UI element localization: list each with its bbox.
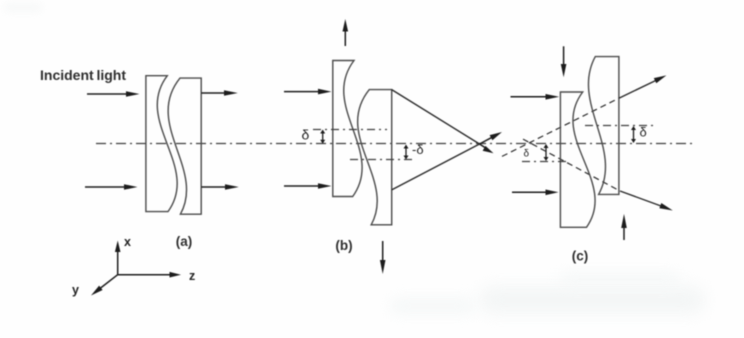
minus-delta marker (b) right bbox=[404, 142, 424, 160]
svg-text:δ: δ bbox=[302, 126, 310, 142]
delta marker (c) right bbox=[631, 125, 647, 144]
svg-text:Incident light: Incident light bbox=[40, 67, 126, 83]
lens element A2 (right element, cubic front, plano rear surface) bbox=[168, 78, 201, 214]
lens element A1 (left element, plano front, cubic rear surface) bbox=[146, 76, 177, 212]
lens element B2 (right element shifted down) bbox=[358, 90, 392, 225]
element axis B1 (dash-dot, shifted up by delta) bbox=[313, 129, 387, 131]
coordinate axis y arrow bbox=[91, 275, 118, 296]
focal arrow down-right (b) bbox=[480, 144, 494, 153]
virtual ray lower dashed (c) bbox=[523, 139, 620, 191]
coordinate axis z arrow bbox=[118, 272, 181, 278]
converging ray lower (b) bbox=[392, 144, 480, 190]
incident arrow (c) bottom bbox=[512, 190, 559, 196]
exit arrow (a) bottom bbox=[202, 184, 239, 190]
svg-text:z: z bbox=[189, 269, 195, 283]
svg-text:y: y bbox=[72, 283, 79, 297]
svg-text:x: x bbox=[124, 235, 131, 249]
lens element C1 (left element shifted down) bbox=[560, 92, 595, 227]
coordinate axis x arrow bbox=[115, 241, 121, 275]
element axis B2 (dash-dot, shifted down by delta) bbox=[350, 159, 412, 161]
converging ray upper (b) bbox=[392, 90, 480, 144]
displacement arrow (c) down bbox=[561, 46, 567, 77]
virtual ray upper dashed (c) bbox=[502, 98, 619, 156]
delta marker (b) left bbox=[302, 126, 326, 144]
element axis C2 (dash-dot, shifted up) bbox=[585, 125, 656, 127]
lens element C2 (right element shifted up) bbox=[588, 57, 618, 195]
exit arrow (a) top bbox=[202, 90, 238, 96]
incident arrow (c) top bbox=[511, 94, 560, 100]
displacement arrow (b) up bbox=[343, 19, 349, 46]
delta marker (c) left bbox=[524, 144, 549, 161]
displacement arrow (b) down bbox=[380, 241, 386, 274]
element axis C1 (dash-dot, shifted down) bbox=[522, 161, 568, 163]
incident arrow (b) top bbox=[284, 89, 332, 95]
svg-text:-δ: -δ bbox=[412, 142, 424, 157]
refracted ray upper (c) bbox=[619, 75, 667, 98]
focal arrow up-right (b) bbox=[480, 132, 503, 144]
svg-text:(b): (b) bbox=[335, 238, 352, 253]
svg-text:(a): (a) bbox=[176, 234, 193, 249]
incident arrow (a) bottom bbox=[85, 184, 138, 190]
displacement arrow (c) up bbox=[621, 214, 627, 240]
incident arrow (a) top bbox=[87, 91, 140, 97]
incident arrow (b) bottom bbox=[284, 183, 332, 189]
svg-text:δ: δ bbox=[640, 125, 647, 140]
optical axis (dash-dot) bbox=[96, 143, 696, 145]
svg-text:(c): (c) bbox=[572, 248, 589, 263]
refracted ray lower (c) bbox=[620, 191, 673, 211]
lens element B1 (left element shifted up) bbox=[333, 61, 362, 197]
svg-text:δ: δ bbox=[524, 148, 530, 159]
